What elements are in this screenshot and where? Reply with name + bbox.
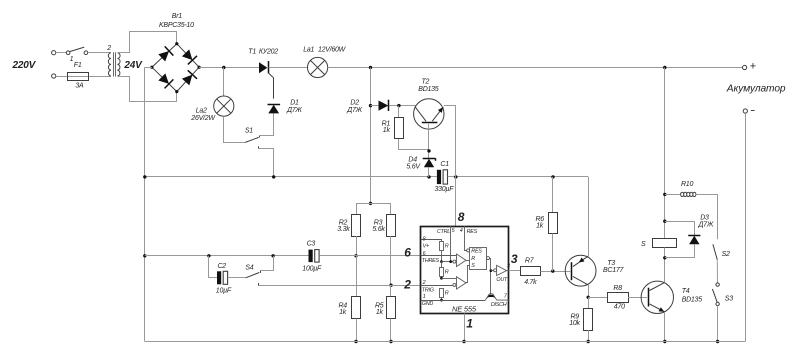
svg-text:T2: T2 bbox=[422, 79, 430, 86]
svg-text:5.6k: 5.6k bbox=[372, 226, 385, 233]
svg-text:CTRL: CTRL bbox=[437, 229, 450, 235]
svg-text:6: 6 bbox=[404, 245, 411, 259]
node D3 bottom / T4 collector bbox=[663, 256, 666, 259]
terminal L (220V line bottom) bbox=[52, 74, 56, 78]
svg-text:10k: 10k bbox=[569, 320, 580, 327]
thyristor T1 cathode bar bbox=[268, 61, 270, 74]
resistor R9 bbox=[584, 309, 593, 331]
svg-text:C2: C2 bbox=[218, 263, 227, 270]
thyristor T1 triangle bbox=[259, 62, 267, 73]
svg-text:330µF: 330µF bbox=[435, 186, 455, 193]
wire C2 to S4 bbox=[228, 277, 246, 279]
wire bbox=[56, 52, 67, 54]
relay coil S bbox=[653, 239, 677, 248]
555 comp2 plus line bbox=[442, 278, 457, 280]
svg-text:+: + bbox=[750, 61, 756, 73]
555 ref line bbox=[442, 261, 453, 263]
svg-text:R7: R7 bbox=[525, 258, 535, 265]
555 comp1 to R bbox=[466, 260, 470, 262]
wire La2 to S1 bbox=[224, 116, 246, 142]
switch S1 blade bbox=[245, 137, 259, 142]
svg-text:S4: S4 bbox=[245, 265, 253, 272]
transistor T4 collector line bbox=[650, 282, 665, 290]
555 flipflop box bbox=[470, 248, 487, 270]
node R5 / rail bbox=[389, 340, 392, 343]
svg-text:5.6V: 5.6V bbox=[406, 163, 421, 170]
wire R10 to S2 bbox=[696, 195, 718, 240]
svg-text:24V: 24V bbox=[123, 60, 143, 71]
node main tap 2 (relay chain) bbox=[663, 66, 666, 69]
wire main tap down bbox=[370, 68, 372, 204]
bridge edge top-right bbox=[177, 44, 199, 67]
node La2 tap bbox=[222, 66, 225, 69]
svg-text:2: 2 bbox=[403, 277, 411, 291]
transistor T4 base bar bbox=[648, 288, 650, 307]
wire S2 to S3 bbox=[716, 260, 718, 283]
S4 lower contact bbox=[258, 283, 260, 286]
svg-text:8: 8 bbox=[423, 237, 426, 243]
node R10 tap bbox=[663, 193, 666, 196]
svg-text:8: 8 bbox=[458, 210, 465, 224]
svg-text:5: 5 bbox=[452, 228, 456, 234]
transistor T2 base bar bbox=[422, 122, 438, 124]
wire tap to La2 bbox=[223, 68, 225, 97]
node left rail / line 6 bbox=[143, 254, 146, 257]
svg-text:S1: S1 bbox=[245, 127, 253, 134]
node net A / D4 bbox=[427, 175, 430, 178]
node main tap 1 bbox=[369, 66, 372, 69]
svg-text:La2: La2 bbox=[196, 108, 207, 115]
555 pin4 line bbox=[465, 226, 467, 251]
wire T1 to La1 bbox=[269, 67, 308, 69]
capacitor C2 bbox=[217, 271, 221, 284]
wire to D2 bbox=[371, 105, 379, 107]
555 comp2 to S bbox=[466, 266, 470, 283]
wire top (bridge to T1) bbox=[199, 67, 259, 69]
transistor T2 circle bbox=[414, 99, 444, 129]
wire bbox=[56, 76, 111, 78]
svg-text:S3: S3 bbox=[725, 295, 733, 302]
svg-text:КУ202: КУ202 bbox=[259, 49, 278, 56]
diode D3 triangle bbox=[689, 236, 699, 244]
diode D3 cathode bar bbox=[688, 235, 700, 237]
svg-text:10µF: 10µF bbox=[216, 288, 232, 295]
wire R4 top bbox=[356, 256, 358, 297]
switch S4 blade bbox=[246, 273, 260, 278]
wire net B horizontal bbox=[448, 176, 589, 178]
capacitor C1 bbox=[437, 170, 441, 184]
label minus bbox=[751, 110, 755, 112]
switch S2 blade bbox=[713, 244, 717, 260]
diode D2 triangle bbox=[379, 101, 389, 111]
555 divider link 1 bbox=[441, 250, 443, 261]
svg-text:BD135: BD135 bbox=[418, 86, 439, 93]
transistor T4 emitter arrow bbox=[659, 307, 665, 312]
555 vplus feed bbox=[422, 240, 442, 242]
svg-text:OUT: OUT bbox=[496, 277, 508, 283]
svg-text:3A: 3A bbox=[75, 83, 84, 90]
wire relay to T4 bbox=[664, 248, 666, 283]
wire S4 upper to line 6 bbox=[260, 256, 274, 271]
svg-text:1k: 1k bbox=[376, 309, 384, 316]
diode D1 cathode bar bbox=[268, 104, 281, 106]
svg-text:470: 470 bbox=[614, 304, 625, 311]
svg-text:Д7Ж: Д7Ж bbox=[698, 221, 714, 228]
wire R4 bottom bbox=[356, 319, 358, 342]
transistor T2 emitter arrow bbox=[438, 107, 443, 113]
wire R1 bottom to base node bbox=[399, 139, 430, 150]
node pin1 / rail bbox=[462, 340, 465, 343]
wire secondary top to bridge bbox=[118, 32, 177, 53]
transformer primary winding bbox=[108, 53, 111, 76]
wire net B down to T3 emitter bbox=[588, 177, 590, 256]
switch S3 blade bbox=[712, 289, 717, 302]
terminal L (220V line top) bbox=[52, 51, 56, 55]
svg-text:1k: 1k bbox=[339, 309, 347, 316]
svg-text:F1: F1 bbox=[74, 62, 82, 69]
transistor T3 collector line bbox=[573, 276, 588, 285]
svg-text:S2: S2 bbox=[722, 251, 730, 258]
transistor T3 circle bbox=[565, 255, 596, 286]
555 trig line bbox=[421, 285, 453, 287]
resistor R5 bbox=[387, 297, 396, 319]
555 divider R mid bbox=[440, 268, 444, 277]
left rail (negative) bbox=[144, 67, 146, 341]
node T4 emitter / rail bbox=[663, 340, 666, 343]
svg-text:R: R bbox=[445, 269, 449, 275]
node R6 / base bbox=[551, 269, 554, 272]
transformer core bbox=[113, 52, 115, 76]
switch 1 blade bbox=[70, 47, 85, 52]
svg-text:Акумулатор: Акумулатор bbox=[726, 84, 786, 95]
resistor R8 bbox=[608, 293, 629, 303]
bridge edge bottom-right bbox=[177, 67, 199, 91]
wire R2 top bbox=[356, 203, 358, 214]
bridge diode 4 (bottom to right) bbox=[181, 70, 197, 86]
zener D4 triangle bbox=[424, 159, 434, 167]
svg-text:3: 3 bbox=[511, 252, 518, 266]
transformer secondary winding bbox=[118, 53, 121, 76]
resistor R3 bbox=[387, 215, 396, 237]
svg-text:3.3k: 3.3k bbox=[337, 226, 350, 233]
node bridge top bbox=[175, 42, 178, 45]
node T3 collector bbox=[587, 296, 590, 299]
transistor T2 emitter line bbox=[432, 107, 443, 121]
svg-text:R: R bbox=[471, 256, 475, 262]
svg-text:1k: 1k bbox=[383, 127, 391, 134]
555 divider link 2 bbox=[441, 262, 443, 268]
svg-text:26V/2W: 26V/2W bbox=[190, 115, 216, 122]
terminal minus bbox=[743, 109, 747, 113]
capacitor C3 bbox=[309, 250, 313, 263]
555 comp2 bubble bbox=[453, 283, 456, 286]
555 out buffer input bbox=[491, 270, 494, 272]
terminal plus bbox=[743, 65, 747, 69]
resistor R7 bbox=[521, 267, 541, 276]
svg-text:220V: 220V bbox=[12, 60, 37, 71]
wire R3 top bbox=[390, 203, 392, 214]
transistor T2 collector line bbox=[415, 107, 426, 122]
transistor T4 circle bbox=[641, 281, 673, 313]
switch 1 contact a bbox=[66, 51, 70, 55]
wire T4 collector up bbox=[664, 258, 666, 283]
svg-text:R: R bbox=[445, 243, 449, 249]
wire T2 emitter to net B bbox=[444, 106, 456, 177]
svg-text:3: 3 bbox=[507, 264, 510, 270]
wire T2 base down bbox=[428, 124, 430, 158]
555 discharge transistor bbox=[485, 294, 509, 300]
wire R6 top bbox=[552, 177, 554, 212]
IC U1 NE555 box bbox=[421, 227, 509, 314]
S1 upper contact bbox=[259, 135, 261, 137]
bridge edge bottom-left bbox=[152, 67, 177, 91]
wire line 2 bbox=[259, 285, 421, 287]
wire C2 branch bbox=[209, 256, 218, 278]
svg-text:2: 2 bbox=[106, 45, 111, 52]
zener D4 bar bbox=[423, 158, 436, 160]
node net B / pin8 bbox=[454, 175, 457, 178]
node D2 tap bbox=[369, 104, 372, 107]
wire T3 collector down bbox=[588, 285, 590, 297]
diode D2 cathode bar bbox=[388, 100, 390, 111]
svg-text:R8: R8 bbox=[613, 285, 622, 292]
diode D3 branch bottom bbox=[665, 244, 695, 257]
555 FF out wire bbox=[490, 259, 491, 295]
svg-text:GND: GND bbox=[422, 301, 434, 307]
svg-text:C1: C1 bbox=[440, 161, 449, 168]
555 thres line bbox=[421, 255, 457, 257]
transistor T3 emitter line bbox=[573, 256, 588, 266]
wire T4 emitter down bbox=[664, 312, 666, 342]
svg-text:6: 6 bbox=[423, 251, 426, 257]
wire La1 to plus terminal bbox=[328, 67, 743, 69]
svg-text:1k: 1k bbox=[536, 223, 544, 230]
wire R8 to T4 base bbox=[628, 297, 647, 299]
node net A / S1 branch bbox=[272, 175, 275, 178]
wire secondary bottom to bridge bbox=[118, 77, 177, 102]
wire minus terminal down bbox=[745, 113, 747, 341]
svg-text:RES: RES bbox=[467, 229, 478, 235]
node D3 top tap bbox=[663, 220, 666, 223]
wire S1 lower to net A bbox=[259, 149, 274, 177]
resistor R2 bbox=[352, 215, 361, 237]
wire R7 to T3 base bbox=[540, 271, 570, 273]
wire R6 bottom bbox=[552, 234, 554, 272]
node bridge right bbox=[198, 66, 201, 69]
svg-text:BD135: BD135 bbox=[682, 297, 703, 304]
555 gnd rail bbox=[422, 300, 486, 302]
svg-text:T4: T4 bbox=[682, 288, 690, 295]
wire pin 8 bbox=[455, 177, 457, 226]
node T2 base bbox=[427, 149, 430, 152]
bridge diode 2 (top to right) bbox=[181, 49, 197, 65]
node C2 tap bbox=[207, 254, 210, 257]
switch 1 contact b bbox=[84, 51, 88, 55]
svg-text:R: R bbox=[445, 291, 449, 297]
wire R9 top bbox=[588, 297, 590, 309]
svg-text:KBPC35-10: KBPC35-10 bbox=[159, 22, 194, 29]
bridge diode 3 (left to bottom) bbox=[157, 72, 173, 88]
wire pin 1 bbox=[464, 314, 466, 342]
wire R2 bottom to line 6 bbox=[356, 236, 358, 256]
555 comp1 bubble bbox=[453, 260, 456, 263]
resistor R4 bbox=[352, 297, 361, 319]
wire R3 bottom to line 2 bbox=[390, 236, 392, 285]
svg-text:V+: V+ bbox=[423, 243, 429, 249]
555 out buffer bbox=[497, 265, 507, 275]
svg-text:NE 555: NE 555 bbox=[452, 305, 477, 314]
svg-text:12V/60W: 12V/60W bbox=[318, 47, 347, 54]
555 divider R top bbox=[440, 242, 444, 251]
svg-text:1: 1 bbox=[423, 294, 426, 300]
svg-text:T1: T1 bbox=[248, 49, 256, 56]
transistor T3 emitter arrow bbox=[579, 258, 585, 263]
555 divider link 3 bbox=[441, 298, 443, 301]
svg-text:D1: D1 bbox=[290, 99, 299, 106]
wire R9 bottom bbox=[588, 330, 590, 341]
fuse F1 bbox=[68, 73, 89, 81]
wire R2 R3 top bbox=[356, 203, 391, 205]
svg-text:Д7Ж: Д7Ж bbox=[346, 107, 362, 114]
lamp La2 bbox=[214, 96, 234, 116]
node S4 upper tap bbox=[271, 254, 274, 257]
wire bbox=[88, 52, 111, 54]
wire D4 to net A bbox=[428, 167, 430, 177]
diode D3 branch top bbox=[665, 222, 695, 236]
node ctrl-ref bbox=[449, 260, 452, 263]
555 pin5 line bbox=[450, 226, 452, 262]
svg-text:D2: D2 bbox=[350, 99, 359, 106]
bottom rail (negative) bbox=[145, 341, 746, 343]
555 out buffer bubble bbox=[494, 269, 497, 272]
bridge edge top-left bbox=[152, 44, 177, 67]
wire R1 top bbox=[398, 106, 400, 118]
bridge diode 1 (left to top) bbox=[157, 46, 173, 62]
wire R5 top bbox=[390, 285, 392, 297]
wire line 6 right bbox=[319, 255, 420, 257]
wire R5 bottom bbox=[390, 319, 392, 342]
svg-text:TRIG: TRIG bbox=[422, 288, 434, 294]
thyristor T1 gate bbox=[268, 73, 273, 99]
wire net A horizontal bbox=[145, 176, 437, 178]
switch S3 contact bottom bbox=[716, 302, 719, 305]
resistor R10 wirewound bbox=[665, 194, 681, 196]
transistor T4 emitter line bbox=[650, 304, 665, 312]
svg-text:Br1: Br1 bbox=[172, 13, 183, 20]
node R3 / line 2 bbox=[389, 284, 392, 287]
svg-text:4: 4 bbox=[460, 228, 463, 234]
node div2 bbox=[440, 277, 443, 280]
wire relay chain top bbox=[664, 68, 666, 239]
switch S3 contact top bbox=[716, 283, 719, 286]
555 comparator 2 bbox=[457, 277, 467, 289]
node net B / R6 bbox=[551, 175, 554, 178]
node R2 / line 6 bbox=[354, 254, 357, 257]
svg-text:DISCH: DISCH bbox=[491, 302, 507, 308]
wire bridge minus to left rail bbox=[145, 67, 152, 69]
555 FF out bubble bbox=[487, 257, 490, 260]
svg-text:1: 1 bbox=[466, 317, 473, 331]
resistor R6 bbox=[549, 213, 558, 234]
node R2/R3 top bbox=[369, 202, 372, 205]
node bridge left bbox=[150, 66, 153, 69]
555 out to edge bbox=[507, 270, 509, 272]
svg-text:BC177: BC177 bbox=[603, 267, 625, 274]
node R1 top bbox=[397, 104, 400, 107]
resistor R1 bbox=[395, 118, 404, 139]
svg-text:Д7Ж: Д7Ж bbox=[286, 107, 302, 114]
S4 upper contact bbox=[260, 271, 262, 274]
svg-text:100µF: 100µF bbox=[302, 266, 322, 273]
svg-text:R10: R10 bbox=[681, 181, 693, 188]
node R9 / rail bbox=[587, 340, 590, 343]
node FF out bbox=[490, 269, 493, 272]
node R4 / rail bbox=[354, 340, 357, 343]
svg-text:7: 7 bbox=[504, 294, 508, 300]
node bridge bottom bbox=[175, 90, 178, 93]
svg-text:La1: La1 bbox=[303, 47, 314, 54]
svg-text:4.7k: 4.7k bbox=[524, 279, 537, 286]
wire S3 down bbox=[717, 306, 719, 342]
node ref bbox=[440, 260, 443, 263]
svg-text:THRES: THRES bbox=[422, 258, 440, 264]
node S3 / rail bbox=[716, 340, 719, 343]
555 FF res bubble bbox=[467, 249, 470, 252]
wire S1 upper to D1 bbox=[259, 113, 273, 135]
wire D2 to T2 collector bbox=[389, 105, 416, 107]
transistor T3 base bar bbox=[571, 262, 573, 280]
S1 lower contact bbox=[258, 146, 260, 148]
555 divider R bottom bbox=[440, 289, 444, 298]
555 comparator 1 bbox=[457, 254, 467, 267]
node div3 bbox=[440, 299, 443, 302]
wire pin 3 bbox=[509, 270, 521, 272]
svg-text:C3: C3 bbox=[307, 240, 316, 247]
diode D1 triangle bbox=[268, 105, 279, 114]
svg-text:RES: RES bbox=[471, 249, 482, 255]
wire to R8 bbox=[588, 297, 607, 299]
lamp La1 bbox=[308, 57, 328, 77]
wire line 6 left bbox=[145, 255, 309, 257]
svg-text:S: S bbox=[641, 241, 646, 248]
node net A / left rail bbox=[143, 175, 146, 178]
